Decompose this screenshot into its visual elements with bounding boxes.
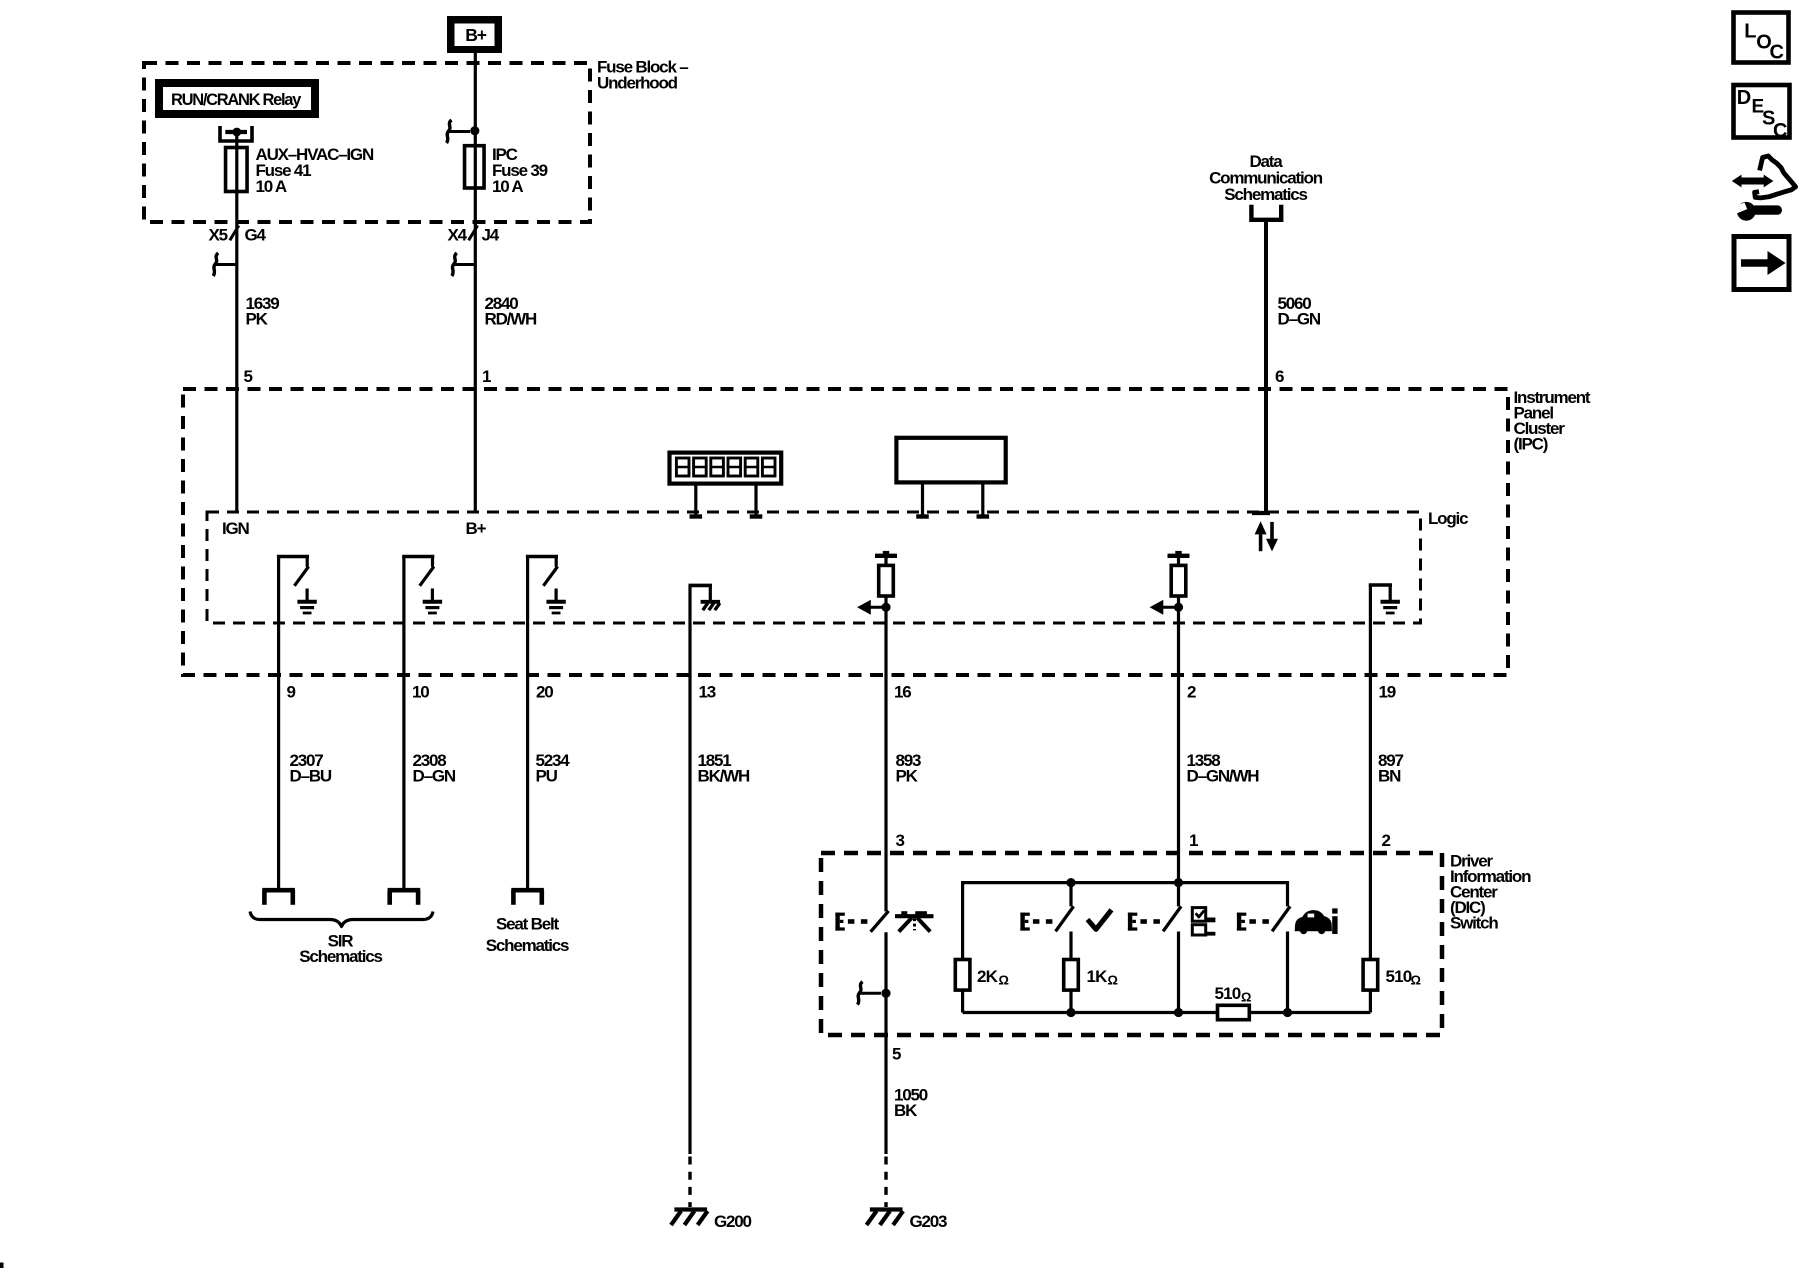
svg-text:X5: X5: [209, 226, 228, 245]
wire 5060 D-GN serial data: [1264, 220, 1268, 512]
svg-text:G4: G4: [245, 226, 267, 245]
T-foot of 5060 wire at Logic border: [1252, 511, 1270, 515]
svg-text:J4: J4: [482, 226, 500, 245]
RUN/CRANK Relay box: [155, 79, 319, 118]
junction dot + clip on B+ wire: [470, 126, 479, 135]
junction dot bottom bus branch 3: [1174, 1008, 1183, 1017]
svg-text:Logic: Logic: [1428, 509, 1468, 528]
svg-text:16: 16: [894, 683, 911, 702]
wire IGN feed (fuse 41 circuit): [235, 131, 238, 512]
junction dot bottom bus branch 2: [1066, 1008, 1075, 1017]
svg-text:BK/WH: BK/WH: [698, 767, 751, 786]
diagnostic double-arrow and wrench icon: [1739, 178, 1768, 185]
fuse F39 IPC 10A: [465, 146, 485, 188]
fuse F41 AUX-HVAC-IGN 10A: [226, 148, 248, 192]
wire B+ feed (fuse 39 circuit): [474, 52, 477, 512]
svg-text:5: 5: [244, 367, 253, 386]
svg-text:20: 20: [536, 683, 553, 702]
svg-text:2K: 2K: [977, 967, 999, 986]
svg-text:BN: BN: [1378, 767, 1401, 786]
resistor pull-up pin 2 branch: [1168, 554, 1190, 558]
wire 2307 D-BU pin 9: [277, 557, 280, 889]
earth ground pin 19 branch: [1369, 583, 1392, 587]
switch S2 B+ to ground: [402, 555, 434, 559]
DESC navigation box: [1734, 85, 1790, 138]
SIR plug pin 10: [388, 888, 421, 893]
off-page bracket: [1251, 205, 1281, 220]
svg-text:Ω: Ω: [1411, 973, 1421, 988]
DIC branch 4 (car info switch): [1286, 881, 1289, 906]
check icon: [1088, 910, 1112, 930]
DIC bottom bus: [963, 1011, 1371, 1014]
Driver Information Center Switch dashed box: [821, 853, 1442, 1035]
resistor 510 vertical: [1363, 960, 1378, 991]
junction dot top bus branch 3: [1174, 878, 1183, 887]
svg-text:RUN/CRANK Relay: RUN/CRANK Relay: [171, 91, 302, 109]
LOC navigation box: [1734, 13, 1789, 63]
svg-text:Schematics: Schematics: [486, 936, 569, 955]
svg-text:5: 5: [892, 1045, 901, 1064]
svg-text:Seat Belt: Seat Belt: [496, 915, 559, 934]
svg-text:G203: G203: [910, 1212, 948, 1231]
ground G203: [870, 1207, 903, 1211]
svg-text:C: C: [1770, 42, 1784, 64]
up/down data arrows: [1259, 534, 1263, 551]
resistor 1K: [1064, 960, 1079, 991]
wire 5234 PU pin 20: [526, 557, 529, 889]
svg-text:Schematics: Schematics: [1224, 185, 1307, 204]
wire 2308 D-GN pin 10: [402, 557, 405, 889]
DIC switch vehicle info (branch 4): [1237, 913, 1241, 931]
page edge mark: [0, 1263, 4, 1269]
wire 897 BN pin 19 to DIC pin 2: [1369, 585, 1372, 960]
svg-text:10: 10: [412, 683, 429, 702]
svg-text:9: 9: [287, 683, 296, 702]
switch S1 IGN to ground: [277, 555, 309, 559]
svg-text:PK: PK: [246, 310, 269, 329]
resistor 2K: [955, 960, 970, 991]
svg-text:510: 510: [1386, 967, 1412, 986]
svg-text:G200: G200: [714, 1212, 752, 1231]
Fuse Block - Underhood dashed box: [144, 63, 590, 222]
svg-text:Switch: Switch: [1450, 914, 1498, 933]
svg-text:B+: B+: [465, 25, 486, 45]
svg-text:BK: BK: [894, 1101, 918, 1120]
junction dot bottom bus branch 4: [1283, 1008, 1292, 1017]
svg-text:D–GN/WH: D–GN/WH: [1187, 767, 1260, 786]
svg-text:1K: 1K: [1087, 967, 1109, 986]
junction dot top bus branch 2: [1066, 878, 1075, 887]
ground G200: [674, 1207, 707, 1211]
svg-text:Ω: Ω: [1241, 990, 1251, 1005]
Seat Belt plug pin 20: [511, 888, 544, 893]
wire 1851 BK/WH pin 13: [688, 585, 691, 1154]
svg-text:6: 6: [1275, 367, 1284, 386]
Instrument Panel Cluster dashed box: [183, 389, 1508, 675]
switch S3 to ground: [526, 555, 558, 559]
svg-text:PU: PU: [536, 767, 558, 786]
svg-text:2: 2: [1187, 683, 1196, 702]
svg-text:13: 13: [699, 683, 716, 702]
svg-text:D–GN: D–GN: [413, 767, 456, 786]
chassis ground pin13 branch: [689, 584, 713, 588]
wire 1358 D-GN/WH pin 2 to DIC pin 1: [1177, 596, 1180, 906]
trip stalk icon: [895, 914, 934, 918]
svg-text:510: 510: [1215, 984, 1241, 1003]
wire 893 PK pin 16 to DIC pin 3: [884, 596, 887, 911]
svg-text:(IPC): (IPC): [1514, 435, 1548, 454]
DIC left branch (2K): [961, 881, 964, 960]
svg-text:IGN: IGN: [222, 519, 250, 538]
Logic dashed box: [207, 512, 1421, 623]
DIC switch check (1K branch): [1020, 913, 1024, 931]
DIC branch 2 (1K switch): [1069, 883, 1072, 907]
svg-text:C: C: [1773, 120, 1787, 142]
forward navigation box: [1734, 237, 1789, 290]
svg-text:1: 1: [1189, 831, 1198, 850]
svg-text:2: 2: [1382, 831, 1391, 850]
svg-text:PK: PK: [896, 767, 919, 786]
resistor 510 horizontal: [1218, 1005, 1250, 1019]
junction clip on wire 1050: [881, 989, 890, 998]
display legs: [694, 484, 697, 517]
IPC internal module: [896, 438, 1005, 483]
svg-text:L: L: [1744, 21, 1756, 43]
svg-text:10 A: 10 A: [492, 177, 523, 196]
SIR brace: [250, 912, 433, 927]
svg-text:10 A: 10 A: [256, 177, 287, 196]
B+ power box: [447, 16, 502, 53]
svg-text:Schematics: Schematics: [299, 947, 382, 966]
svg-text:X4: X4: [448, 226, 468, 245]
svg-text:B+: B+: [466, 519, 487, 538]
svg-text:Ω: Ω: [999, 973, 1009, 988]
odometer seven-segment display: [670, 453, 782, 484]
svg-text:RD/WH: RD/WH: [485, 310, 538, 329]
svg-text:3: 3: [896, 831, 905, 850]
DIC switch trip (wire 893): [835, 913, 839, 931]
relay output terminal: [220, 126, 252, 141]
svg-text:D: D: [1737, 87, 1751, 109]
svg-text:D–GN: D–GN: [1278, 310, 1321, 329]
svg-text:Ω: Ω: [1108, 973, 1118, 988]
module legs: [921, 482, 924, 516]
svg-text:Underhood: Underhood: [597, 74, 678, 93]
svg-text:1: 1: [482, 367, 491, 386]
SIR plug pin 9: [262, 888, 295, 893]
DIC top bus: [963, 881, 1288, 884]
DIC switch customization (pin 1 wire): [1128, 913, 1132, 931]
svg-text:D–BU: D–BU: [290, 767, 332, 786]
svg-text:19: 19: [1379, 683, 1396, 702]
checkbox list icon: [1192, 908, 1205, 922]
wire 1050 BK DIC pin 5 to G203: [884, 932, 887, 1154]
car info icon: [1295, 911, 1331, 931]
resistor pull-up pin 16 branch: [875, 554, 897, 558]
